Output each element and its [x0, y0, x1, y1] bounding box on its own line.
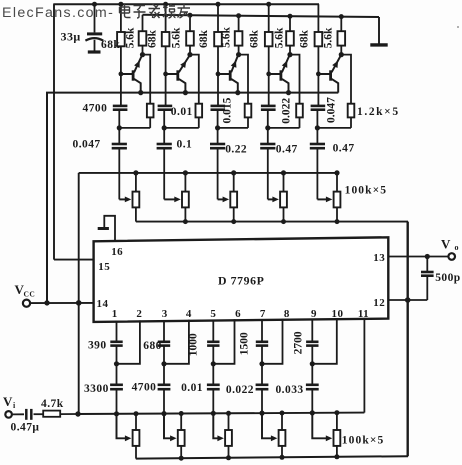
junction: lower pot top on input bus (stage 2) — [179, 411, 184, 416]
junction: pin 12 line on right vertical — [405, 297, 411, 303]
svg-text:0.47: 0.47 — [276, 144, 298, 156]
junction: stage 2 node (cap/1.2k) — [162, 125, 167, 130]
label 68k (stage 2) — [146, 29, 158, 48]
wire: wiper arm into lower pot (stage 2) — [164, 414, 177, 442]
potentiometer 100k upper (stage 4) — [280, 173, 287, 222]
resistor 68k (stage 3) — [214, 4, 222, 74]
label pin 8 — [284, 308, 290, 320]
wire: pin 6 elbow — [213, 319, 234, 364]
wire: left vertical from bias rail down to pin 15 — [53, 4, 55, 259]
junction: stage 4 node (cap/1.2k) — [265, 125, 270, 130]
potentiometer 100k lower (stage 4) — [279, 413, 286, 457]
transistor Q1 (emitter follower, stage 1) — [121, 56, 142, 92]
label 0.033 — [275, 384, 303, 396]
svg-text:0.047: 0.047 — [326, 97, 338, 123]
junction: lower pot top on input bus (stage 3) — [226, 411, 231, 416]
svg-text:5.6k: 5.6k — [322, 27, 334, 48]
capacitor C5b (series to wiper) — [310, 128, 325, 199]
potentiometer 100k upper (stage 5) — [334, 173, 341, 222]
wire: input bus — [77, 413, 364, 414]
junction: stage 1 on input bus — [114, 411, 119, 416]
svg-text:5.6k: 5.6k — [273, 27, 285, 48]
wire: top bias rail (V bias) — [53, 3, 319, 5]
resistor 5.6k (stage 4) — [286, 16, 294, 54]
wire: pin 8 elbow — [262, 319, 283, 364]
wire: wiper arm into lower pot (stage 5) — [312, 413, 332, 441]
svg-text:0.01: 0.01 — [171, 106, 193, 118]
label 5.6k (stage 1) — [124, 27, 136, 48]
capacitor 390 (pin 1) — [110, 342, 122, 346]
wire: wiper arm into upper pot (stage 5) — [317, 197, 332, 203]
label 1000 — [188, 333, 200, 356]
svg-text:680: 680 — [143, 340, 162, 352]
potentiometer 100k upper (stage 2) — [182, 173, 189, 222]
svg-text:10: 10 — [332, 308, 344, 320]
svg-text:2: 2 — [136, 308, 142, 320]
wire: wiper arm into lower pot (stage 1) — [117, 414, 132, 441]
capacitor 0.01 (stage 3 input) — [207, 364, 220, 389]
svg-text:13: 13 — [373, 252, 385, 264]
junction on bias rail (68k stage 4) — [266, 2, 271, 7]
junction: emitter node under 5.6k (stage 4) — [287, 52, 292, 57]
junction: stage 5 on input bus — [310, 410, 315, 415]
resistor 1.2k (stage 1) — [147, 104, 154, 128]
resistor 68k (stage 1) — [117, 4, 125, 74]
label 680 — [143, 340, 162, 352]
junction: stage 5 node (cap/1.2k) — [315, 125, 320, 130]
label C1a value — [83, 102, 108, 114]
junction on bias rail (33μ) — [92, 2, 97, 7]
Vcc terminal — [23, 300, 30, 307]
label pin 14 — [97, 298, 109, 310]
label pin 13 — [373, 252, 385, 264]
resistor 68k (stage 2) — [162, 4, 170, 74]
junction: base of Q4 — [266, 72, 271, 77]
svg-text:4.7k: 4.7k — [41, 398, 64, 410]
wire: cap to node (pin 9) — [311, 346, 313, 364]
capacitor 0.47μ (input) — [12, 409, 43, 420]
wire: cap to input bus (stage 3) — [212, 389, 214, 413]
junction on ground rail (5.6k stage 4) — [288, 14, 293, 19]
svg-text:12: 12 — [373, 297, 385, 309]
wire: stage 2 node link — [164, 127, 199, 129]
label 33μ — [61, 30, 81, 44]
label pin 2 — [136, 308, 142, 320]
label C4a value — [281, 98, 293, 124]
label C5a value — [326, 97, 338, 123]
label 4700 — [132, 382, 157, 394]
junction: upper pot bottom on rail (stage 3) — [231, 219, 236, 224]
label C3b value — [225, 143, 247, 155]
wire: upper ground rail — [143, 15, 380, 17]
label pin 3 — [162, 308, 168, 320]
label C4b value — [276, 144, 298, 156]
junction: node pin 1/2 — [114, 361, 119, 366]
junction: lower pot top on input bus (stage 4) — [280, 411, 285, 416]
svg-text:500p: 500p — [435, 272, 460, 284]
junction: stage 3 on input bus — [211, 411, 216, 416]
svg-text:0.47: 0.47 — [333, 143, 355, 155]
transistor Q5 (emitter follower, stage 5) — [318, 56, 340, 92]
wire: wiper arm into upper pot (stage 4) — [268, 197, 279, 203]
svg-text:D 7796P: D 7796P — [218, 274, 264, 288]
wire: upper pot bottom rail — [136, 221, 408, 223]
wire: wiper arm into upper pot (stage 1) — [119, 197, 131, 203]
junction: base of Q2 — [163, 72, 168, 77]
svg-text:0.047: 0.047 — [73, 138, 101, 150]
label 68k (stage 1) — [101, 39, 120, 51]
wire: cap to node (pin 1) — [116, 346, 118, 364]
capacitor 680 (pin 3) — [158, 342, 170, 346]
svg-text:68k: 68k — [299, 29, 311, 48]
wire: stage 3 node link — [218, 127, 248, 129]
wire: pin 11 down to input bus — [363, 318, 365, 413]
junction on ground rail (5.6k stage 5) — [339, 14, 344, 19]
label 100k×5 (upper) — [345, 185, 388, 197]
svg-text:15: 15 — [98, 261, 110, 273]
label Vo — [441, 237, 459, 253]
IC U1 D7796P body — [94, 237, 389, 322]
junction: upper pot top on wiper bus (stage 2) — [183, 170, 188, 175]
label C1b value — [73, 138, 101, 150]
svg-text:68k: 68k — [249, 29, 261, 48]
capacitor C1a (base series cap) — [113, 74, 128, 128]
wire: cap to input bus (stage 2) — [163, 389, 165, 413]
wire: wiper arm into lower pot (stage 3) — [213, 413, 224, 441]
junction: upper pot top on wiper bus (stage 3) — [231, 170, 236, 175]
junction: lower pot bottom on rail (stage 2) — [179, 456, 184, 461]
junction: stage 1 node (cap/1.2k) — [117, 125, 122, 130]
resistor 1.2k (stage 3) — [245, 104, 252, 128]
label pin 1 — [112, 308, 118, 320]
svg-text:1500: 1500 — [239, 332, 251, 355]
junction on bias rail (68k stage 1) — [118, 2, 123, 7]
wire: emitter node to 1.2k (stage 2) — [190, 55, 199, 104]
wire: cap to input bus (stage 1) — [116, 389, 118, 414]
label pin 6 — [235, 308, 241, 320]
svg-text:33μ: 33μ — [61, 30, 81, 44]
svg-text:0.022: 0.022 — [281, 98, 293, 124]
label 68k (stage 5) — [299, 29, 311, 48]
label 5.6k (stage 3) — [220, 27, 232, 48]
potentiometer 100k lower (stage 5) — [334, 413, 341, 457]
svg-text:68k: 68k — [198, 29, 210, 48]
label D 7796P — [218, 274, 264, 288]
wire: pin 3 lead — [163, 320, 165, 342]
label Vi — [3, 394, 16, 410]
wire: pin 12 — [388, 299, 427, 301]
svg-text:100k×5: 100k×5 — [345, 185, 388, 197]
junction: lower pot top on input bus (stage 5) — [334, 410, 339, 415]
wire: pin 1 lead — [116, 321, 118, 342]
label pin 10 — [332, 308, 344, 320]
label 1.2k×5 — [357, 106, 400, 118]
svg-text:8: 8 — [284, 308, 290, 320]
wire: emitter node to 1.2k (stage 4) — [290, 55, 300, 104]
wire: upper wiper bus — [79, 172, 339, 174]
capacitor C2b (series to wiper) — [157, 128, 172, 199]
label 5.6k (stage 4) — [273, 27, 285, 48]
junction: 4.7k joins input bus — [75, 411, 80, 416]
wire: cap to node (pin 5) — [212, 346, 214, 364]
capacitor C5a (base series cap) — [311, 74, 326, 128]
label 68k (stage 4) — [249, 29, 261, 48]
resistor 5.6k (stage 2) — [186, 15, 194, 54]
junction on bias rail (68k stage 2) — [163, 2, 168, 7]
junction: lower pot top on input bus (stage 1) — [134, 411, 139, 416]
svg-text:1: 1 — [112, 308, 118, 320]
junction: lower pot bottom on rail (stage 3) — [226, 455, 231, 460]
svg-text:0.033: 0.033 — [275, 384, 303, 396]
svg-text:5.6k: 5.6k — [124, 27, 136, 48]
watermark ElecFans.com-电子发烧友 (decorative text) — [2, 4, 190, 21]
wire: pin 2 elbow — [117, 320, 140, 363]
capacitor 4700 (stage 2 input) — [158, 364, 171, 389]
junction: base of Q3 — [216, 72, 221, 77]
svg-text:16: 16 — [111, 246, 123, 258]
svg-text:7: 7 — [260, 308, 266, 320]
resistor 4.7k (input series) — [43, 411, 78, 417]
label 500p — [435, 272, 460, 284]
junction on ground rail (5.6k stage 3) — [236, 13, 241, 18]
capacitor 1500 (pin 7) — [256, 342, 268, 346]
svg-text:ElecFans.com-: ElecFans.com- — [2, 5, 114, 21]
label pin 16 — [111, 246, 123, 258]
label 1500 — [239, 332, 251, 355]
wire: wiper-bus left drop to input bus — [78, 173, 80, 414]
junction: emitter node under 5.6k (stage 1) — [140, 52, 145, 57]
label pin 4 — [186, 308, 192, 320]
junction on ground rail (5.6k stage 2) — [188, 13, 193, 18]
ground (top right) — [370, 17, 387, 45]
capacitor C3b (series to wiper) — [210, 128, 225, 199]
junction: 500p tap on pin 13 line — [425, 254, 430, 259]
label C2a value — [171, 106, 193, 118]
svg-text:CC: CC — [24, 290, 36, 299]
junction: collector-bus column meets Vcc line — [44, 300, 49, 305]
label 2700 — [293, 331, 305, 354]
svg-text:68k: 68k — [146, 29, 158, 48]
wire: pin 15 horizontal into IC — [54, 259, 94, 261]
wire: wiper arm into upper pot (stage 2) — [164, 197, 181, 203]
svg-text:5.6k: 5.6k — [220, 27, 232, 48]
svg-text:0.022: 0.022 — [226, 384, 254, 396]
resistor 5.6k (stage 5) — [338, 17, 346, 55]
label 4.7k — [41, 398, 64, 410]
junction: node pin 3/4 — [161, 361, 166, 366]
Vi terminal — [5, 411, 12, 418]
svg-text:6: 6 — [235, 308, 241, 320]
label C3a value — [222, 97, 234, 123]
junction on bias rail (68k stage 5) — [0, 0, 1, 1]
label C2b value — [177, 139, 193, 151]
junction: upper pot bottom on rail (stage 4) — [281, 219, 286, 224]
svg-text:1.2k×5: 1.2k×5 — [357, 106, 400, 118]
svg-text:o: o — [455, 243, 459, 252]
label pin 12 — [373, 297, 385, 309]
speck (scan artifact) — [457, 26, 459, 28]
svg-text:1000: 1000 — [188, 333, 200, 356]
resistor 1.2k (stage 5) — [348, 104, 355, 128]
wire: pin 5 lead — [212, 320, 214, 342]
potentiometer 100k upper (stage 1) — [133, 173, 140, 222]
wire: pin 13 to Vo — [388, 256, 448, 258]
pin 16 wire and signal-ground hook — [98, 216, 115, 241]
junction: upper pot bottom on rail (stage 5) — [335, 219, 340, 224]
capacitor 0.022 (stage 4 input) — [256, 364, 269, 389]
wire: wiper arm into lower pot (stage 4) — [262, 413, 277, 441]
resistor 68k (stage 5) — [315, 4, 323, 74]
label 5.6k (stage 5) — [322, 27, 334, 48]
wire: emitter node to 1.2k (stage 1) — [143, 55, 151, 104]
junction: stage 4 on input bus — [259, 411, 264, 416]
svg-text:0.1: 0.1 — [177, 139, 193, 151]
wire: cap to input bus (stage 4) — [261, 389, 263, 413]
junction: upper pot top on wiper bus (stage 1) — [133, 170, 138, 175]
label 0.01 — [181, 382, 203, 394]
wire: emitter node to 1.2k (stage 3) — [239, 55, 248, 104]
svg-text:0.01: 0.01 — [181, 382, 203, 394]
svg-text:4700: 4700 — [132, 382, 157, 394]
wire: stage 4 node link — [268, 127, 300, 129]
label pin 15 — [98, 261, 110, 273]
wire: collector bus (emitter row to Vcc) — [47, 93, 338, 303]
capacitor 33μ (decoupling, rail to ground bar) — [85, 4, 103, 52]
junction: collector of Q2 on collector bus — [183, 90, 188, 95]
junction: base of Q5 — [316, 72, 321, 77]
junction: collector of Q4 on collector bus — [286, 90, 291, 95]
wire: emitter node to 1.2k (stage 5) — [341, 55, 351, 104]
capacitor 3300 (stage 1 input) — [110, 364, 123, 389]
junction: emitter node under 5.6k (stage 2) — [187, 52, 192, 57]
resistor 68k (stage 4) — [265, 4, 273, 74]
wire: cap to node (pin 7) — [261, 346, 263, 364]
label pin 11 — [358, 308, 369, 320]
Vo terminal — [448, 253, 455, 260]
svg-text:0.47μ: 0.47μ — [11, 422, 40, 434]
capacitor 2700 (pin 9) — [306, 342, 318, 346]
resistor 5.6k (stage 3) — [235, 16, 243, 55]
junction: upper pot bottom on rail (stage 2) — [183, 219, 188, 224]
capacitor C4a (base series cap) — [261, 74, 276, 128]
resistor 5.6k (stage 1) — [139, 15, 147, 55]
svg-text:3: 3 — [162, 308, 168, 320]
junction on bias rail (68k stage 3) — [216, 2, 221, 7]
capacitor C4b (series to wiper) — [260, 128, 275, 199]
potentiometer 100k lower (stage 1) — [133, 414, 140, 459]
svg-text:9: 9 — [311, 308, 317, 320]
wire: pin 7 lead — [261, 319, 263, 342]
label pin 7 — [260, 308, 266, 320]
label pin 5 — [210, 308, 216, 320]
capacitor C3a (base series cap) — [211, 74, 226, 128]
label 5.6k (stage 2) — [170, 27, 182, 48]
svg-text:390: 390 — [88, 339, 107, 351]
resistor 1.2k (stage 2) — [196, 104, 203, 128]
capacitor 500p — [421, 257, 434, 301]
svg-text:3300: 3300 — [84, 383, 109, 395]
junction: node pin 5/6 — [211, 361, 216, 366]
transistor Q2 (emitter follower, stage 2) — [166, 56, 189, 92]
label 68k (stage 3) — [198, 29, 210, 48]
capacitor 0.033 (stage 5 input) — [306, 364, 319, 389]
junction: node pin 9/10 — [310, 361, 315, 366]
junction: lower pot bottom on rail (stage 5) — [334, 454, 339, 459]
transistor Q3 (emitter follower, stage 3) — [218, 56, 238, 92]
junction: node pin 7/8 — [259, 361, 264, 366]
wire: cap to input bus (stage 5) — [311, 389, 313, 413]
wire: wiper arm into upper pot (stage 3) — [218, 197, 230, 203]
svg-text:0.015: 0.015 — [222, 97, 234, 123]
svg-text:100k×5: 100k×5 — [342, 435, 385, 447]
transistor Q4 (emitter follower, stage 4) — [269, 56, 289, 92]
wire: right vertical (pot rails to pin 12 and bottom rail) — [407, 222, 409, 457]
label 0.022 — [226, 384, 254, 396]
label Vcc — [15, 282, 36, 299]
wire: stage 5 node link — [317, 127, 351, 129]
label C5b value — [333, 143, 355, 155]
capacitor C1b (series to wiper) — [112, 128, 127, 199]
junction: stage 2 on input bus — [161, 411, 166, 416]
svg-text:V: V — [441, 237, 451, 252]
potentiometer 100k lower (stage 3) — [225, 413, 232, 458]
potentiometer 100k lower (stage 2) — [178, 414, 185, 459]
junction: emitter node under 5.6k (stage 5) — [339, 52, 344, 57]
svg-text:4700: 4700 — [83, 102, 108, 114]
junction: wiper-bus drop crosses Vcc line — [76, 300, 82, 306]
wire: Vcc to pin 14 — [30, 302, 93, 304]
label 3300 — [84, 383, 109, 395]
junction: stage 3 node (cap/1.2k) — [215, 125, 220, 130]
capacitor C2a (base series cap) — [158, 74, 173, 128]
svg-text:5: 5 — [210, 308, 216, 320]
potentiometer 100k upper (stage 3) — [230, 173, 237, 222]
label 390 — [88, 339, 107, 351]
svg-text:5.6k: 5.6k — [170, 27, 182, 48]
label 100k×5 (lower) — [342, 435, 385, 447]
junction: upper pot top on wiper bus (stage 5) — [334, 170, 339, 175]
wire: pin 4 elbow — [164, 320, 189, 364]
wire: pin 9 lead — [311, 319, 313, 342]
svg-text:0.22: 0.22 — [225, 143, 247, 155]
svg-text:i: i — [13, 401, 16, 410]
label pin 9 — [311, 308, 317, 320]
svg-text:4: 4 — [186, 308, 192, 320]
label 0.47μ — [11, 422, 40, 434]
junction: base of Q1 — [119, 72, 124, 77]
wire: pin 10 elbow — [312, 318, 337, 364]
junction: lower pot bottom on rail (stage 4) — [280, 455, 285, 460]
junction: upper pot top on wiper bus (stage 4) — [281, 170, 286, 175]
wire: cap to node (pin 3) — [163, 346, 165, 364]
junction: collector of Q3 on collector bus — [235, 90, 240, 95]
wire: bottom pot rail — [136, 456, 408, 458]
svg-text:2700: 2700 — [293, 331, 305, 354]
resistor 1.2k (stage 4) — [296, 104, 303, 128]
wire: stage 1 node link — [119, 127, 150, 129]
svg-text:14: 14 — [97, 298, 109, 310]
svg-text:V: V — [3, 394, 13, 409]
junction: collector of Q1 on collector bus — [138, 90, 143, 95]
svg-text:68k: 68k — [101, 39, 120, 51]
capacitor 1000 (pin 5) — [207, 342, 219, 346]
junction: emitter node under 5.6k (stage 3) — [236, 52, 241, 57]
